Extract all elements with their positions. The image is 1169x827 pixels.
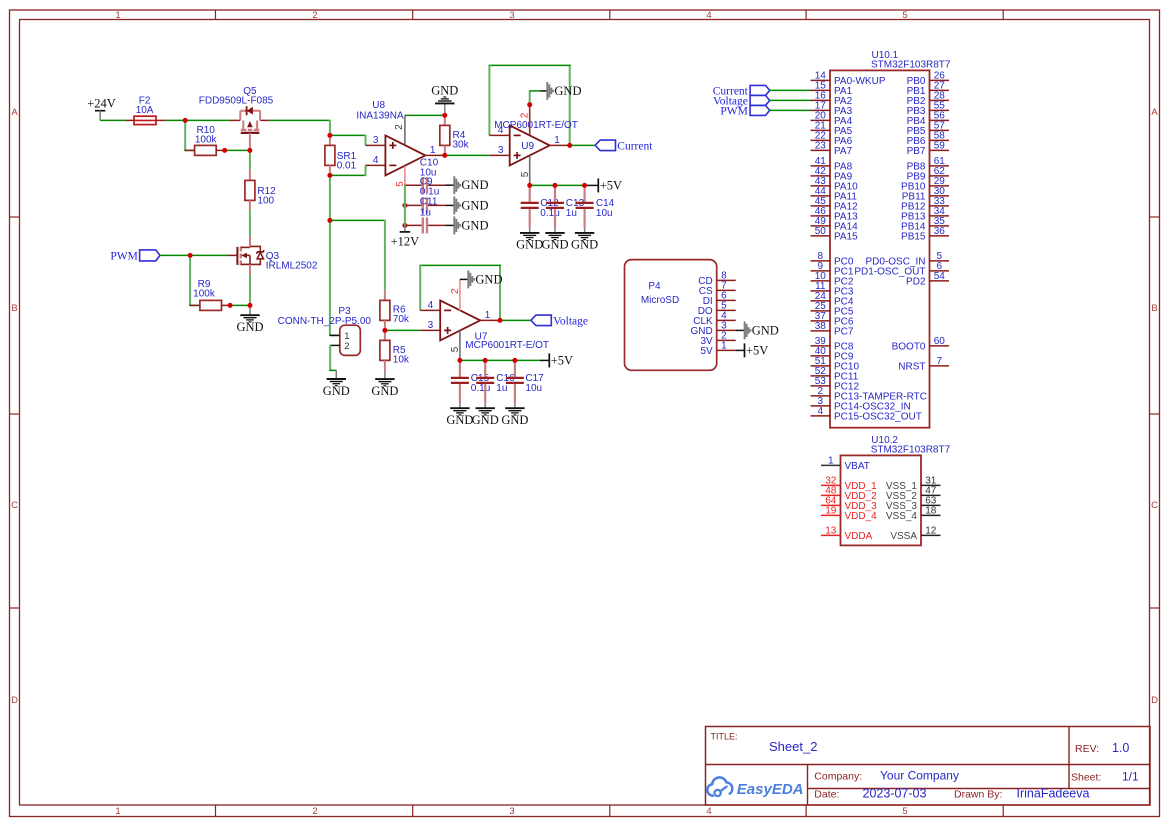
svg-text:GND: GND <box>516 238 543 252</box>
junction C15 top <box>457 358 462 363</box>
U10.1 pin 10 PC2 <box>811 271 854 288</box>
svg-text:Your Company: Your Company <box>880 769 959 783</box>
U10.1 pin 23 PA7 <box>811 141 853 158</box>
power flag +5V near U7 <box>549 353 573 367</box>
IC U10.2 body <box>841 455 922 545</box>
op-amp U8 pin2 line <box>394 115 405 144</box>
title block frame <box>706 727 1151 806</box>
title REV value 1.0 <box>1112 741 1129 755</box>
svg-text:1: 1 <box>115 10 120 21</box>
capacitor C13 <box>546 185 564 228</box>
svg-text:GND: GND <box>431 84 458 98</box>
U10.1 pin 60 BOOT0 <box>892 336 949 353</box>
label Q5 <box>243 86 257 97</box>
svg-text:100: 100 <box>257 196 274 207</box>
connector P3 pin 1 <box>330 331 349 342</box>
svg-text:GND: GND <box>461 178 488 192</box>
svg-text:BOOT0: BOOT0 <box>892 342 926 353</box>
power flag +5V near U9 <box>598 178 622 192</box>
title block Drawn By label <box>954 788 1002 800</box>
wire SR1 top to U8 pin3 <box>330 135 366 146</box>
U10.1 pin 42 PA9 <box>811 166 853 183</box>
svg-text:1: 1 <box>554 135 560 146</box>
svg-text:10u: 10u <box>525 383 542 394</box>
svg-text:38: 38 <box>815 321 827 332</box>
svg-text:GND: GND <box>752 323 779 337</box>
svg-text:5: 5 <box>902 806 907 817</box>
title Sheet value 1/1 <box>1122 769 1139 783</box>
U10.1 pin 41 PA8 <box>811 156 853 173</box>
svg-text:IRLML2502: IRLML2502 <box>266 260 318 271</box>
svg-text:1u: 1u <box>420 207 431 218</box>
junction U7 output <box>498 318 503 323</box>
label C11 <box>420 196 438 207</box>
U10.1 pin 46 PA13 <box>811 206 859 223</box>
svg-text:70k: 70k <box>393 314 410 325</box>
svg-text:P4: P4 <box>648 281 661 292</box>
label R5 <box>393 345 406 356</box>
junction C12 top <box>527 183 532 188</box>
svg-text:1: 1 <box>485 310 491 321</box>
wire Voltage flag to PA2 <box>770 99 811 101</box>
wire PWM to Q3 gate <box>160 254 228 256</box>
capacitor C14 <box>576 185 594 228</box>
connector P3 pin 2 <box>330 341 349 352</box>
label STM32F103R8T7 of U10.1 <box>871 60 951 71</box>
label C12 <box>540 198 559 209</box>
IC U10.1 body <box>830 70 930 427</box>
connector P4 pin 4 CLK <box>693 311 735 327</box>
svg-text:59: 59 <box>934 141 946 152</box>
svg-text:U9: U9 <box>521 141 534 152</box>
label 10A <box>136 105 154 116</box>
label C9 <box>420 177 433 188</box>
net flag PWM to MCU <box>720 105 769 117</box>
resistor SR1 <box>325 135 335 175</box>
U10.2 pin 47 VSS_2 <box>886 486 941 503</box>
op-amp U8 triangle <box>385 135 425 175</box>
svg-text:1: 1 <box>721 341 727 352</box>
U10.1 pin 26 PB0 <box>907 71 949 88</box>
label R6 <box>393 304 406 315</box>
svg-text:0.1u: 0.1u <box>540 208 559 219</box>
U10.1 pin 56 PB4 <box>907 111 949 128</box>
wire PWM flag to PA3 <box>770 109 811 111</box>
wire PWM node down to R9 <box>189 255 200 305</box>
svg-text:C11: C11 <box>420 196 438 207</box>
wire U8 pin5 column <box>404 185 406 225</box>
net flag Voltage output <box>531 315 588 327</box>
U10.1 pin 29 PB10 <box>901 176 949 193</box>
U10.1 pin 62 PB9 <box>907 166 949 183</box>
label 10u value of C17 <box>525 383 542 394</box>
op-amp U7 triangle <box>440 300 480 340</box>
U10.2 pin 12 VSSA <box>890 526 940 543</box>
capacitor C15 <box>451 360 469 403</box>
EasyEDA logo <box>707 777 803 798</box>
svg-text:Sheet:: Sheet: <box>1071 771 1101 783</box>
U10.1 pin 2 PC13-TAMPER-RTC <box>811 386 927 403</box>
svg-text:INA139NA: INA139NA <box>356 110 404 121</box>
svg-text:1: 1 <box>430 145 436 156</box>
junction U8 output <box>442 153 447 158</box>
ground below C14 <box>571 228 598 252</box>
svg-text:PA7: PA7 <box>834 146 853 157</box>
U10.1 pin 55 PB3 <box>907 101 949 118</box>
svg-text:2: 2 <box>312 806 317 817</box>
svg-text:REV:: REV: <box>1075 743 1099 755</box>
svg-text:Date:: Date: <box>814 788 839 800</box>
op-amp U7 feedback loop <box>419 265 501 321</box>
svg-text:GND: GND <box>323 384 350 398</box>
label CONN-TH_2P-P5.00 <box>278 316 372 327</box>
svg-text:FDD9509L-F085: FDD9509L-F085 <box>199 96 274 107</box>
label 1u value of C13 <box>566 208 577 219</box>
svg-text:5: 5 <box>450 346 461 352</box>
U10.1 pin 14 PA0-WKUP <box>811 71 886 88</box>
op-amp U7 output pin1 <box>480 310 500 321</box>
label U10.1 <box>872 50 899 61</box>
svg-text:4: 4 <box>706 806 711 817</box>
U10.1 pin 21 PA5 <box>811 121 853 138</box>
U10.1 pin 28 PB2 <box>907 91 949 108</box>
junction R9 right <box>228 303 233 308</box>
svg-text:4: 4 <box>706 10 711 21</box>
title block Company label <box>814 771 862 783</box>
svg-text:54: 54 <box>934 271 946 282</box>
svg-text:GND: GND <box>461 198 488 212</box>
U10.1 pin 45 PA12 <box>811 196 859 213</box>
U10.2 pin 63 VSS_3 <box>886 496 941 513</box>
svg-text:VDDA: VDDA <box>845 531 873 542</box>
label U7 <box>475 331 488 342</box>
U10.1 pin 8 PC0 <box>811 251 854 268</box>
svg-text:PA15: PA15 <box>834 232 858 243</box>
U10.1 pin 9 PC1 <box>811 261 854 278</box>
svg-text:TITLE:: TITLE: <box>711 732 738 742</box>
label F2 <box>139 96 151 107</box>
label 1u <box>420 207 431 218</box>
power flag +12V <box>391 225 420 248</box>
svg-text:3: 3 <box>373 135 379 146</box>
U10.2 pin 13 VDDA <box>821 526 873 543</box>
op-amp U9 output pin1 <box>550 135 570 146</box>
op-amp U8 output pin1 <box>425 145 444 156</box>
svg-text:7: 7 <box>937 356 943 367</box>
U10.1 pin 16 PA2 <box>811 91 853 108</box>
svg-text:GND: GND <box>554 84 581 98</box>
svg-text:5: 5 <box>902 10 907 21</box>
svg-text:23: 23 <box>815 141 827 152</box>
svg-text:MCP6001RT-E/OT: MCP6001RT-E/OT <box>465 340 549 351</box>
U10.2 pin 48 VDD_2 <box>821 486 877 503</box>
label Q3 <box>266 251 280 262</box>
svg-text:B: B <box>1151 303 1157 314</box>
svg-text:2023-07-03: 2023-07-03 <box>863 786 927 800</box>
svg-text:PD2: PD2 <box>906 277 926 288</box>
svg-text:STM32F103R8T7: STM32F103R8T7 <box>871 444 951 455</box>
label C13 <box>566 198 585 209</box>
svg-text:+5V: +5V <box>600 178 622 192</box>
ground flag right of C9 <box>454 196 488 214</box>
U10.1 pin 57 PB5 <box>907 121 949 138</box>
label 0.1u <box>420 186 439 197</box>
label C16 <box>496 373 515 384</box>
title Company value <box>880 769 959 783</box>
U10.1 pin 49 PA14 <box>811 216 859 233</box>
connector P4 pin 1 5V <box>700 341 735 357</box>
U10.1 pin 58 PB6 <box>907 131 949 148</box>
net flag PWM <box>110 250 160 262</box>
op-amp U8 pin4 lead <box>366 155 386 166</box>
svg-text:C: C <box>1151 500 1158 511</box>
junction at F2 output <box>183 118 188 123</box>
op-amp U9 feedback loop <box>488 65 570 146</box>
svg-text:3: 3 <box>509 806 514 817</box>
ground above R4 <box>431 84 458 114</box>
svg-text:PB15: PB15 <box>901 232 926 243</box>
svg-text:+24V: +24V <box>87 97 116 111</box>
svg-text:GND: GND <box>461 218 488 232</box>
label U8 <box>372 100 385 111</box>
op-amp U9 triangle <box>510 125 550 165</box>
U10.1 pin 44 PA11 <box>811 186 858 203</box>
svg-text:GND: GND <box>371 384 398 398</box>
svg-text:1/1: 1/1 <box>1122 769 1139 783</box>
svg-text:5V: 5V <box>700 346 713 357</box>
svg-text:1: 1 <box>115 806 120 817</box>
svg-text:+5V: +5V <box>746 343 768 357</box>
U10.1 pin 11 PC3 <box>811 281 854 298</box>
svg-text:100k: 100k <box>195 134 218 145</box>
svg-text:PWM: PWM <box>720 105 747 117</box>
capacitor C16 <box>476 360 494 403</box>
svg-text:VSS_4: VSS_4 <box>886 511 918 522</box>
svg-text:+5V: +5V <box>551 353 573 367</box>
svg-text:PC7: PC7 <box>834 327 854 338</box>
ground below C13 <box>541 228 568 252</box>
U10.1 pin 30 PB11 <box>902 186 949 203</box>
svg-text:PC15-OSC32_OUT: PC15-OSC32_OUT <box>834 412 922 423</box>
label FDD9509L-F085 <box>199 96 274 107</box>
junction Q5 gate node <box>247 148 252 153</box>
label IRLML2502 <box>266 260 318 271</box>
U10.1 pin 4 PC15-OSC32_OUT <box>811 406 922 423</box>
label 100 <box>257 196 274 207</box>
svg-text:1: 1 <box>828 456 834 467</box>
transistor Q3 <box>228 236 264 275</box>
svg-text:Current: Current <box>617 140 653 152</box>
title Drawn By value <box>1017 786 1090 800</box>
label 0.1u value of C12 <box>540 208 559 219</box>
svg-text:12: 12 <box>925 526 937 537</box>
svg-text:VSSA: VSSA <box>890 531 917 542</box>
power flag +24V <box>87 97 116 121</box>
U10.1 pin 38 PC7 <box>811 321 854 338</box>
U10.1 pin 53 PC12 <box>811 376 860 393</box>
capacitor C11 <box>402 217 454 233</box>
ground flag at U9 pin2 <box>547 82 581 100</box>
capacitor C12 <box>521 185 539 228</box>
op-amp U9 pin4 lead <box>489 125 509 136</box>
svg-text:Drawn By:: Drawn By: <box>954 788 1002 800</box>
U10.1 pin 61 PB8 <box>907 156 949 173</box>
U10.1 pin 35 PB14 <box>901 216 949 233</box>
ground below C15 <box>446 403 473 427</box>
svg-text:1u: 1u <box>566 208 577 219</box>
connector P4 pin 3 GND <box>690 321 735 337</box>
svg-text:VDD_4: VDD_4 <box>845 511 878 522</box>
svg-text:IrinaFadeeva: IrinaFadeeva <box>1017 786 1090 800</box>
label U10.2 <box>871 435 898 446</box>
wire P4 GND pin <box>736 329 745 331</box>
svg-text:GND: GND <box>541 238 568 252</box>
resistor R6 <box>380 290 390 330</box>
U10.2 pin 31 VSS_1 <box>886 476 941 493</box>
label C14 <box>596 198 615 209</box>
resistor R5 <box>380 330 390 370</box>
wire P3 pin2 to ground <box>329 345 336 371</box>
ground flag right of C10 <box>454 176 488 194</box>
U10.1 pin 51 PC10 <box>811 356 860 373</box>
wire R10 to gate node <box>225 149 250 151</box>
wire +24V to F2 <box>100 119 125 121</box>
connector P4 pin 8 CD <box>698 271 735 287</box>
svg-text:D: D <box>11 695 18 706</box>
svg-text:A: A <box>1151 107 1158 118</box>
title block Sheet label <box>1071 771 1101 783</box>
wire U8 pin2 to R4 top <box>405 114 445 116</box>
capacitor C9 <box>402 197 454 213</box>
label 10u <box>420 167 437 178</box>
label U9 <box>521 141 534 152</box>
svg-text:5: 5 <box>520 171 531 177</box>
label 0.1u value of C15 <box>471 383 490 394</box>
svg-text:2: 2 <box>312 10 317 21</box>
connector P4 pin 6 DI <box>703 291 736 307</box>
label 30k <box>453 140 470 151</box>
connector P4 body <box>625 260 717 371</box>
label 70k <box>393 314 410 325</box>
svg-text:4: 4 <box>373 155 379 166</box>
wire F2 node down to R10 <box>184 120 194 150</box>
svg-text:18: 18 <box>925 506 937 517</box>
net flag Current to MCU <box>713 85 770 97</box>
label MCP6001RT-E/OT of U7 <box>465 340 549 351</box>
ground flag right of C11 <box>454 216 488 234</box>
connector P4 pin 2 3V <box>700 331 735 347</box>
connector P4 pin 7 CS <box>699 281 736 297</box>
svg-text:10A: 10A <box>136 105 154 116</box>
label R12 <box>257 186 276 197</box>
ground flag at P4 pin3 <box>745 321 779 339</box>
svg-text:Sheet_2: Sheet_2 <box>769 739 817 754</box>
U10.1 pin 50 PA15 <box>811 226 859 243</box>
U10.1 pin 25 PC5 <box>811 301 854 318</box>
label SR1 <box>337 151 357 162</box>
svg-text:50: 50 <box>815 226 827 237</box>
op-amp U7 pin2 line <box>450 279 461 310</box>
wire U9 output to Current flag <box>570 144 595 146</box>
wire U9 +5V bus <box>530 184 598 186</box>
junction C13 top <box>553 183 558 188</box>
ground flag at U7 pin2 <box>468 270 502 288</box>
ground below C16 <box>472 403 499 427</box>
title block TITLE label <box>711 732 738 742</box>
svg-text:GND: GND <box>501 413 528 427</box>
U10.2 pin 32 VDD_1 <box>821 476 877 493</box>
junction P3 branch <box>327 218 332 223</box>
wire node down to P3 pin1 <box>329 220 340 335</box>
junction R4 top <box>442 113 447 118</box>
svg-text:1u: 1u <box>496 383 507 394</box>
U10.2 pin 19 VDD_4 <box>821 506 877 523</box>
label INA139NA <box>356 110 404 121</box>
svg-text:C: C <box>11 500 18 511</box>
svg-text:GND: GND <box>446 413 473 427</box>
svg-text:GND: GND <box>475 272 502 286</box>
wire Q3 source down <box>249 275 251 306</box>
svg-text:B: B <box>11 303 17 314</box>
ground below C17 <box>501 403 528 427</box>
junction Q3 source ground node <box>248 303 253 308</box>
svg-text:2: 2 <box>394 124 405 130</box>
U10.1 pin 7 NRST <box>898 356 949 373</box>
svg-text:4: 4 <box>818 406 824 417</box>
title block Date label <box>814 788 839 800</box>
U10.1 pin 40 PC9 <box>811 346 854 363</box>
label C10 <box>420 158 439 169</box>
U10.1 pin 33 PB12 <box>901 196 949 213</box>
U10.1 pin 43 PA10 <box>811 176 859 193</box>
junction PWM node <box>188 253 193 258</box>
svg-text:4: 4 <box>428 300 434 311</box>
wire U9 pin2 to GND flag <box>530 90 547 105</box>
U10.1 pin 54 PD2 <box>906 271 949 288</box>
U10.1 pin 27 PB1 <box>907 81 949 98</box>
label MicroSD <box>641 295 679 306</box>
svg-text:MicroSD: MicroSD <box>641 295 679 306</box>
svg-text:2: 2 <box>344 341 349 352</box>
label R10 <box>197 125 216 136</box>
svg-text:NRST: NRST <box>898 362 925 373</box>
svg-text:10u: 10u <box>596 208 613 219</box>
junction R10 right <box>222 148 227 153</box>
frame row letters A-D <box>11 107 1158 706</box>
title Sheet_2 <box>769 739 817 754</box>
label R4 <box>453 130 466 141</box>
U10.1 pin 52 PC11 <box>811 366 859 383</box>
U10.1 pin 5 PD0-OSC_IN <box>865 251 949 268</box>
connector P3 body <box>340 325 361 355</box>
svg-text:3: 3 <box>428 320 434 331</box>
U10.1 pin 6 PD1-OSC_OUT <box>854 261 949 278</box>
wire U7 pin2 to GND flag <box>460 278 468 280</box>
op-amp U9 pin2 line <box>520 105 531 136</box>
svg-text:STM32F103R8T7: STM32F103R8T7 <box>871 60 951 71</box>
op-amp U7 pin4 lead <box>420 300 440 311</box>
net flag Current output <box>595 140 653 152</box>
net flag Voltage to MCU <box>713 95 770 107</box>
junction C17 top <box>512 358 517 363</box>
op-amp U8 pin3 lead <box>366 135 386 146</box>
title Date value <box>863 786 927 800</box>
resistor R9 <box>190 300 230 310</box>
svg-text:A: A <box>11 107 18 118</box>
svg-text:36: 36 <box>934 226 946 237</box>
wire R9 to ground node <box>230 304 250 306</box>
label 0.01 <box>337 160 357 171</box>
